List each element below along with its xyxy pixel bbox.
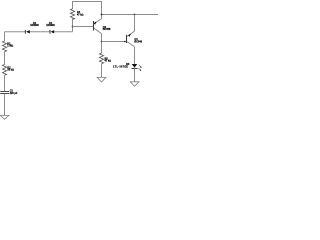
wire diode row bbox=[5, 31, 26, 33]
svg-text:47 kΩ: 47 kΩ bbox=[105, 60, 112, 63]
wire LED-ground bbox=[134, 68, 136, 81]
capacitor C1 bbox=[0, 92, 9, 94]
svg-text:1N4006: 1N4006 bbox=[30, 24, 39, 27]
svg-text:220 µF: 220 µF bbox=[10, 92, 18, 95]
node R4/base junction bbox=[72, 26, 74, 28]
wire R2-C1 bbox=[4, 75, 6, 91]
resistor R4 bbox=[70, 9, 74, 20]
svg-text:1 MΩ: 1 MΩ bbox=[7, 44, 13, 47]
node Q2 emitter junction bbox=[101, 14, 103, 16]
transistor Q1 bbox=[127, 15, 135, 65]
svg-text:BC558: BC558 bbox=[103, 28, 111, 31]
node Q1 collector junction bbox=[134, 14, 136, 16]
node Q1 base pin bbox=[124, 41, 126, 43]
LED D3 bbox=[132, 64, 142, 71]
svg-text:1N4006: 1N4006 bbox=[46, 24, 55, 27]
ground right bbox=[130, 82, 139, 86]
wire R4 bottom bbox=[72, 18, 74, 32]
ground left bbox=[0, 115, 9, 119]
wire emitter rail bbox=[102, 14, 159, 16]
node Q2 collector junction bbox=[101, 41, 103, 43]
ground middle bbox=[97, 77, 106, 82]
transistor Q2 bbox=[94, 15, 102, 53]
svg-text:56 kΩ: 56 kΩ bbox=[7, 68, 14, 71]
resistor R5 bbox=[99, 53, 103, 64]
svg-text:LTL-307EE: LTL-307EE bbox=[113, 65, 128, 68]
wire top rail bbox=[73, 2, 102, 16]
diode D1 bbox=[50, 30, 54, 34]
wire Q2 base bbox=[73, 26, 94, 28]
diode D2 bbox=[25, 30, 30, 34]
wire R5-ground bbox=[101, 64, 103, 77]
wire C1-ground bbox=[4, 94, 6, 115]
resistor R2 bbox=[2, 65, 6, 76]
wire Q1 base bbox=[102, 41, 127, 43]
svg-text:BC548: BC548 bbox=[134, 41, 142, 44]
svg-text:47 kΩ: 47 kΩ bbox=[77, 14, 84, 17]
wire R1-R2 bbox=[4, 52, 6, 65]
resistor R1 bbox=[2, 41, 6, 52]
wire left rail top bbox=[4, 32, 6, 41]
